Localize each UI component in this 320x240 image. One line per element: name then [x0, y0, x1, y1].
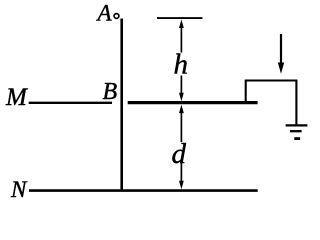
svg-text:h: h [174, 49, 189, 81]
svg-text:A: A [96, 1, 113, 26]
svg-text:B: B [103, 79, 118, 105]
svg-text:M: M [5, 84, 28, 111]
svg-text:N: N [10, 177, 28, 202]
svg-text:d: d [172, 138, 187, 170]
